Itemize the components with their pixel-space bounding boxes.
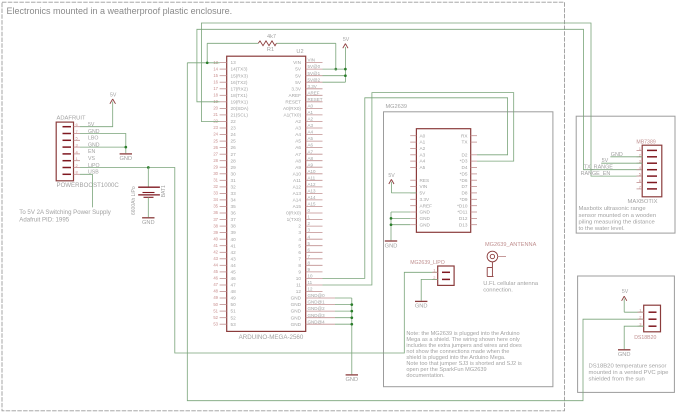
svg-text:5V: 5V <box>110 92 117 98</box>
svg-text:*D11: *D11 <box>457 210 467 215</box>
svg-text:A9: A9 <box>308 162 314 167</box>
svg-text:47: 47 <box>231 283 237 288</box>
svg-text:3: 3 <box>298 230 301 235</box>
svg-text:D12: D12 <box>459 216 468 221</box>
svg-text:TX_RANGE: TX_RANGE <box>584 165 613 171</box>
svg-text:29: 29 <box>213 164 218 169</box>
svg-text:A8: A8 <box>308 156 314 161</box>
svg-text:A10: A10 <box>308 169 317 174</box>
svg-text:documentation.: documentation. <box>406 373 445 379</box>
svg-text:43: 43 <box>231 256 237 261</box>
svg-text:Electronics mounted in a weath: Electronics mounted in a weatherproof pl… <box>7 6 233 16</box>
svg-text:GND: GND <box>420 216 431 221</box>
svg-text:Note too that jumper SJ3 is sh: Note too that jumper SJ3 is shorted and … <box>406 361 522 367</box>
svg-text:1(TX0): 1(TX0) <box>287 217 302 222</box>
svg-text:A0: A0 <box>420 133 426 138</box>
svg-text:GND: GND <box>618 352 631 358</box>
svg-text:5V: 5V <box>420 191 427 196</box>
svg-text:VIN: VIN <box>308 58 316 63</box>
svg-text:A0(RX0): A0(RX0) <box>283 106 301 111</box>
svg-text:Mega as a shield. The wiring: Mega as a shield. The wiring shown here … <box>406 337 520 343</box>
svg-text:31: 31 <box>213 178 218 183</box>
svg-text:5: 5 <box>298 243 301 248</box>
svg-text:D2: D2 <box>462 152 468 157</box>
svg-text:13: 13 <box>213 60 218 65</box>
svg-text:34: 34 <box>231 198 237 203</box>
svg-text:D7: D7 <box>462 184 468 189</box>
svg-text:51: 51 <box>231 309 237 314</box>
svg-text:MG2639: MG2639 <box>386 104 407 110</box>
svg-text:A3: A3 <box>308 123 314 128</box>
svg-text:7: 7 <box>298 256 301 261</box>
svg-text:A1: A1 <box>308 110 314 115</box>
svg-text:A7: A7 <box>308 149 314 154</box>
svg-text:shielded from the sun: shielded from the sun <box>589 377 645 383</box>
svg-text:GND: GND <box>611 152 623 158</box>
svg-text:A13: A13 <box>293 191 302 196</box>
svg-text:A4: A4 <box>308 130 314 135</box>
svg-text:mounted in a vented PVC pipe: mounted in a vented PVC pipe <box>589 370 670 376</box>
svg-text:10: 10 <box>296 276 302 281</box>
svg-text:Adafruit PID: 1995: Adafruit PID: 1995 <box>19 216 69 223</box>
svg-text:A2: A2 <box>420 146 426 151</box>
svg-text:33: 33 <box>213 191 218 196</box>
svg-text:GND: GND <box>142 220 155 226</box>
svg-text:LiPO: LiPO <box>88 163 100 169</box>
svg-text:53: 53 <box>231 322 237 327</box>
svg-text:GND@1: GND@1 <box>308 300 326 305</box>
svg-text:50: 50 <box>213 302 218 307</box>
svg-text:A6: A6 <box>295 145 301 150</box>
svg-text:31: 31 <box>231 178 237 183</box>
svg-text:4: 4 <box>298 237 301 242</box>
svg-text:*D9: *D9 <box>460 197 468 202</box>
svg-text:GND: GND <box>291 322 302 327</box>
svg-text:A14: A14 <box>308 195 317 200</box>
svg-text:R1: R1 <box>267 47 274 53</box>
svg-text:28: 28 <box>231 158 237 163</box>
svg-text:41: 41 <box>231 243 237 248</box>
svg-text:ADAFRUIT: ADAFRUIT <box>57 115 86 121</box>
svg-text:11: 11 <box>308 280 313 285</box>
svg-text:37: 37 <box>213 217 218 222</box>
svg-text:21: 21 <box>213 112 218 117</box>
svg-text:20: 20 <box>213 106 218 111</box>
svg-text:44: 44 <box>231 263 237 268</box>
svg-text:GND: GND <box>88 129 100 135</box>
svg-text:piling measuring the distance: piling measuring the distance <box>579 219 656 225</box>
svg-text:MAXBOTIX: MAXBOTIX <box>628 199 658 205</box>
svg-text:5V: 5V <box>602 158 609 164</box>
svg-text:D13: D13 <box>459 222 468 227</box>
svg-text:GND: GND <box>345 377 358 383</box>
svg-text:A9: A9 <box>295 165 301 170</box>
svg-text:16(TX2): 16(TX2) <box>231 80 248 85</box>
svg-text:RANGE_EN: RANGE_EN <box>581 171 611 177</box>
svg-text:46: 46 <box>231 276 237 281</box>
svg-text:connection.: connection. <box>483 288 513 294</box>
svg-text:AREF: AREF <box>420 203 433 208</box>
svg-text:10: 10 <box>308 274 314 279</box>
svg-text:MG2639_ANTENNA: MG2639_ANTENNA <box>485 242 537 248</box>
svg-text:4k7: 4k7 <box>267 34 276 40</box>
svg-text:A14: A14 <box>293 198 302 203</box>
svg-text:A1(TX0): A1(TX0) <box>284 113 302 118</box>
svg-text:12: 12 <box>296 289 302 294</box>
svg-text:5V: 5V <box>388 173 395 179</box>
svg-text:A5: A5 <box>308 136 314 141</box>
svg-text:sensor mounted on a wooden: sensor mounted on a wooden <box>579 213 657 219</box>
svg-text:A4: A4 <box>420 159 426 164</box>
svg-text:to the water level.: to the water level. <box>579 226 626 232</box>
svg-text:39: 39 <box>213 230 218 235</box>
svg-text:38: 38 <box>231 224 237 229</box>
svg-text:28: 28 <box>213 158 218 163</box>
svg-text:13: 13 <box>231 60 237 65</box>
svg-text:A11: A11 <box>293 178 301 183</box>
svg-text:A8: A8 <box>295 158 301 163</box>
svg-text:USB: USB <box>88 170 99 176</box>
svg-text:52: 52 <box>213 315 218 320</box>
svg-text:A12: A12 <box>293 185 302 190</box>
svg-text:42: 42 <box>231 250 237 255</box>
svg-text:15: 15 <box>213 73 218 78</box>
svg-text:U2: U2 <box>296 49 303 55</box>
svg-text:GND: GND <box>291 315 302 320</box>
svg-text:42: 42 <box>213 250 218 255</box>
svg-text:A13: A13 <box>308 189 317 194</box>
svg-text:35: 35 <box>213 204 218 209</box>
svg-text:40: 40 <box>213 236 218 241</box>
svg-text:5V: 5V <box>343 37 350 43</box>
svg-text:14(TX3): 14(TX3) <box>231 67 248 72</box>
svg-text:50: 50 <box>231 302 237 307</box>
svg-text:A11: A11 <box>308 175 316 180</box>
svg-text:14: 14 <box>213 66 218 71</box>
svg-text:3.3V: 3.3V <box>420 197 431 202</box>
svg-text:52: 52 <box>231 315 237 320</box>
svg-text:41: 41 <box>213 243 218 248</box>
svg-text:A10: A10 <box>293 171 302 176</box>
svg-text:*D10: *D10 <box>457 203 468 208</box>
svg-text:2: 2 <box>298 224 301 229</box>
svg-text:GND@3: GND@3 <box>308 313 326 318</box>
svg-text:Maxbotix ultrasonic range: Maxbotix ultrasonic range <box>579 206 647 212</box>
svg-text:A3: A3 <box>420 152 426 157</box>
svg-text:A3: A3 <box>295 126 301 131</box>
svg-text:6: 6 <box>298 250 301 255</box>
svg-text:43: 43 <box>213 256 218 261</box>
svg-text:19(RX1): 19(RX1) <box>231 99 249 104</box>
svg-text:20(SDA): 20(SDA) <box>231 106 249 111</box>
svg-text:DS18B20: DS18B20 <box>634 335 656 341</box>
svg-text:5V@2: 5V@2 <box>308 77 321 82</box>
svg-text:VIN: VIN <box>420 184 428 189</box>
svg-text:GND: GND <box>291 302 302 307</box>
svg-text:48: 48 <box>231 289 237 294</box>
svg-text:AREF: AREF <box>308 90 320 95</box>
svg-text:36: 36 <box>213 210 218 215</box>
svg-text:23: 23 <box>231 126 237 131</box>
svg-text:25: 25 <box>213 138 218 143</box>
svg-text:A6: A6 <box>308 143 314 148</box>
svg-text:37: 37 <box>231 217 237 222</box>
svg-text:30: 30 <box>213 171 218 176</box>
svg-text:24: 24 <box>231 132 237 137</box>
svg-text:39: 39 <box>231 230 237 235</box>
svg-text:16: 16 <box>213 79 218 84</box>
svg-text:A2: A2 <box>295 119 301 124</box>
svg-text:35: 35 <box>231 204 237 209</box>
svg-text:44: 44 <box>213 263 218 268</box>
svg-text:27: 27 <box>231 152 237 157</box>
svg-text:POWERBOOST1000C: POWERBOOST1000C <box>57 182 120 189</box>
svg-text:A15: A15 <box>293 204 302 209</box>
svg-text:47: 47 <box>213 282 218 287</box>
svg-text:VS: VS <box>88 156 95 162</box>
svg-text:48: 48 <box>213 289 218 294</box>
svg-text:49: 49 <box>231 296 237 301</box>
svg-text:36: 36 <box>231 211 237 216</box>
svg-text:GND@4: GND@4 <box>308 319 326 324</box>
svg-text:RESET: RESET <box>308 97 323 102</box>
svg-text:RX: RX <box>461 133 468 138</box>
svg-text:15(RX3): 15(RX3) <box>231 73 249 78</box>
svg-text:GND: GND <box>415 304 428 310</box>
svg-text:3.3V: 3.3V <box>291 86 302 91</box>
svg-text:17: 17 <box>213 86 218 91</box>
svg-text:5V@1: 5V@1 <box>308 71 321 76</box>
svg-text:17(RX2): 17(RX2) <box>231 86 249 91</box>
svg-text:32: 32 <box>213 184 218 189</box>
svg-text:RES: RES <box>420 178 430 183</box>
svg-text:0(RX0): 0(RX0) <box>286 211 301 216</box>
svg-text:To 5V 2A Switching Power Suppl: To 5V 2A Switching Power Supply <box>19 209 111 216</box>
svg-text:21(SCL): 21(SCL) <box>231 113 249 118</box>
svg-text:3.3V: 3.3V <box>308 84 317 89</box>
svg-text:GND: GND <box>119 156 132 162</box>
svg-text:18: 18 <box>213 93 218 98</box>
svg-text:BAT1: BAT1 <box>161 185 167 197</box>
svg-text:9: 9 <box>298 270 301 275</box>
svg-text:23: 23 <box>213 125 218 130</box>
svg-text:GND: GND <box>291 309 302 314</box>
svg-text:5V: 5V <box>295 80 302 85</box>
svg-text:25: 25 <box>231 139 237 144</box>
svg-text:*D3: *D3 <box>460 159 468 164</box>
svg-text:11: 11 <box>296 283 301 288</box>
svg-text:24: 24 <box>213 132 218 137</box>
svg-text:A12: A12 <box>308 182 317 187</box>
svg-text:29: 29 <box>231 165 237 170</box>
svg-text:22: 22 <box>231 119 237 124</box>
svg-text:8: 8 <box>298 263 301 268</box>
svg-text:A7: A7 <box>295 152 301 157</box>
svg-text:VIN: VIN <box>293 60 301 65</box>
svg-text:26: 26 <box>213 145 218 150</box>
svg-text:A2: A2 <box>308 117 314 122</box>
svg-text:MG2639_LIPO: MG2639_LIPO <box>410 260 445 266</box>
svg-text:30: 30 <box>231 171 237 176</box>
svg-text:6600Ah LiPo: 6600Ah LiPo <box>131 186 137 215</box>
svg-text:*D5: *D5 <box>460 172 468 177</box>
svg-text:ARDUINO-MEGA-2560: ARDUINO-MEGA-2560 <box>239 334 304 341</box>
svg-text:5V: 5V <box>295 73 302 78</box>
svg-text:RESET: RESET <box>285 99 301 104</box>
svg-text:5V: 5V <box>295 67 302 72</box>
svg-text:EN: EN <box>88 149 95 155</box>
svg-text:GND: GND <box>420 222 431 227</box>
svg-text:45: 45 <box>213 269 218 274</box>
svg-text:GND: GND <box>291 296 302 301</box>
svg-text:GND: GND <box>385 243 398 249</box>
svg-text:33: 33 <box>231 191 237 196</box>
svg-text:49: 49 <box>213 295 218 300</box>
svg-text:38: 38 <box>213 223 218 228</box>
svg-text:27: 27 <box>213 151 218 156</box>
svg-text:A5: A5 <box>295 139 301 144</box>
svg-text:5V@0: 5V@0 <box>308 64 321 69</box>
svg-text:45: 45 <box>231 270 237 275</box>
svg-text:A0: A0 <box>308 104 314 109</box>
svg-text:GND@0: GND@0 <box>308 293 326 298</box>
svg-text:34: 34 <box>213 197 218 202</box>
svg-text:GND: GND <box>420 210 431 215</box>
svg-text:18(TX1): 18(TX1) <box>231 93 248 98</box>
svg-text:A4: A4 <box>295 132 301 137</box>
svg-text:A1: A1 <box>420 140 426 145</box>
svg-text:12: 12 <box>308 287 314 292</box>
svg-text:5V: 5V <box>622 289 629 295</box>
svg-text:*D6: *D6 <box>460 178 468 183</box>
svg-text:32: 32 <box>231 185 237 190</box>
svg-text:A15: A15 <box>308 202 317 207</box>
svg-text:D4: D4 <box>462 165 468 170</box>
svg-text:46: 46 <box>213 276 218 281</box>
svg-text:D8: D8 <box>462 191 468 196</box>
svg-text:40: 40 <box>231 237 237 242</box>
svg-text:DS18B20 temperature sensor: DS18B20 temperature sensor <box>589 364 667 370</box>
svg-text:U.FL cellular antenna: U.FL cellular antenna <box>483 281 539 287</box>
svg-text:GND@2: GND@2 <box>308 306 326 311</box>
svg-text:AREF: AREF <box>288 93 301 98</box>
svg-text:A5: A5 <box>420 165 426 170</box>
svg-text:26: 26 <box>231 145 237 150</box>
svg-text:51: 51 <box>213 308 218 313</box>
svg-text:53: 53 <box>213 321 218 326</box>
svg-text:LBO: LBO <box>88 136 98 142</box>
svg-text:TX: TX <box>462 140 469 145</box>
